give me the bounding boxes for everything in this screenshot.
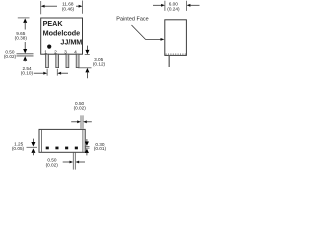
dimension 11.68 line left with arrow xyxy=(44,5,57,7)
dimension 0.50 top extension lines xyxy=(80,115,82,128)
svg-text:(0.01): (0.01) xyxy=(94,146,107,151)
bottom view inner wall line right xyxy=(82,130,84,152)
side view body outline xyxy=(165,20,187,56)
svg-text:(0.46): (0.46) xyxy=(62,7,75,12)
bottom view inner wall line left xyxy=(40,130,42,152)
svg-text:(0.38): (0.38) xyxy=(15,36,28,41)
svg-text:(0.02): (0.02) xyxy=(46,162,59,167)
dimension 9.65 line with up arrow xyxy=(23,18,27,23)
pin 3 lead xyxy=(66,54,69,67)
dimension 6.00 extension line left xyxy=(164,1,166,11)
svg-text:(0.05): (0.05) xyxy=(12,146,25,151)
painted face leader arrowhead xyxy=(161,38,165,41)
dimension 2.54 right arrow xyxy=(57,72,61,75)
dimension 1.25 tick line xyxy=(27,146,38,148)
dimension 3.05 top tick xyxy=(85,53,90,55)
svg-text:PEAK: PEAK xyxy=(43,19,64,28)
side view standoff dotted line xyxy=(166,53,186,55)
dimension 1.25 down arrow xyxy=(32,139,34,143)
svg-text:(0.24): (0.24) xyxy=(167,7,180,12)
pin 2 lead xyxy=(56,54,59,67)
bottom view pin 3 section xyxy=(65,147,68,150)
dimension 11.68 line right with arrow xyxy=(76,5,79,7)
pin 1 lead xyxy=(46,54,49,67)
svg-text:(0.12): (0.12) xyxy=(93,62,106,67)
dimension 3.05 bottom extension line xyxy=(78,67,91,69)
bottom view outline xyxy=(39,129,85,152)
dimension 3.05 down arrow from above xyxy=(86,46,88,52)
svg-text:(0.10): (0.10) xyxy=(21,71,34,76)
bottom view pin 1 section xyxy=(46,147,49,150)
svg-text:(0.02): (0.02) xyxy=(74,106,87,111)
pin 4 lead xyxy=(76,54,79,67)
svg-text:JJ/MM: JJ/MM xyxy=(60,37,82,46)
svg-text:4: 4 xyxy=(74,50,77,56)
dimension 0.30 tick lines xyxy=(85,145,90,147)
painted face leader line xyxy=(132,25,162,39)
svg-text:3: 3 xyxy=(64,50,67,56)
dimension 2.54 extension line pin2 xyxy=(56,69,58,76)
dimension 0.50 top right arrow xyxy=(83,120,87,123)
dimension 0.50 parallel reference lines left xyxy=(17,53,34,55)
svg-text:6.00: 6.00 xyxy=(169,1,179,6)
dimension 11.68 extension line left xyxy=(40,1,42,14)
dimension 3.05 up arrow from below xyxy=(85,68,89,73)
svg-text:Painted Face: Painted Face xyxy=(116,16,148,22)
dimension 0.50 bottom right arrow xyxy=(76,161,80,164)
pin-1 dot marker xyxy=(47,45,51,49)
svg-text:Modelcode: Modelcode xyxy=(43,29,81,38)
svg-text:(0.02): (0.02) xyxy=(4,54,17,59)
side view pin xyxy=(169,55,170,67)
dimension 0.50 bottom left arrow xyxy=(63,161,70,163)
dimension 1.25 up arrow xyxy=(31,148,35,153)
dimension 11.68 extension line right xyxy=(82,1,84,14)
dimension 6.00 outside arrow right xyxy=(187,4,191,7)
dimension 0.50 top left arrow xyxy=(71,121,77,123)
dimension 6.00 extension line right xyxy=(186,1,188,11)
bottom view pin 2 section xyxy=(55,147,58,150)
dimension 0.50 up arrow below xyxy=(23,56,27,61)
svg-text:1: 1 xyxy=(44,50,47,56)
dimension 2.54 extension line pin1 xyxy=(46,69,48,76)
dimension 0.30 down arrow xyxy=(86,139,88,143)
front view body outline xyxy=(41,18,83,54)
dimension 9.65 line with down arrow xyxy=(24,42,26,50)
dimension 6.00 outside arrow left xyxy=(153,4,162,6)
dimension 2.54 left arrow xyxy=(34,72,44,74)
svg-text:2: 2 xyxy=(54,50,57,56)
bottom view pin 4 section xyxy=(75,147,78,150)
dimension 0.30 up arrow xyxy=(85,149,89,154)
dimension 0.50 bottom extension lines xyxy=(72,153,74,170)
dimension 9.65 top extension line xyxy=(18,17,30,19)
